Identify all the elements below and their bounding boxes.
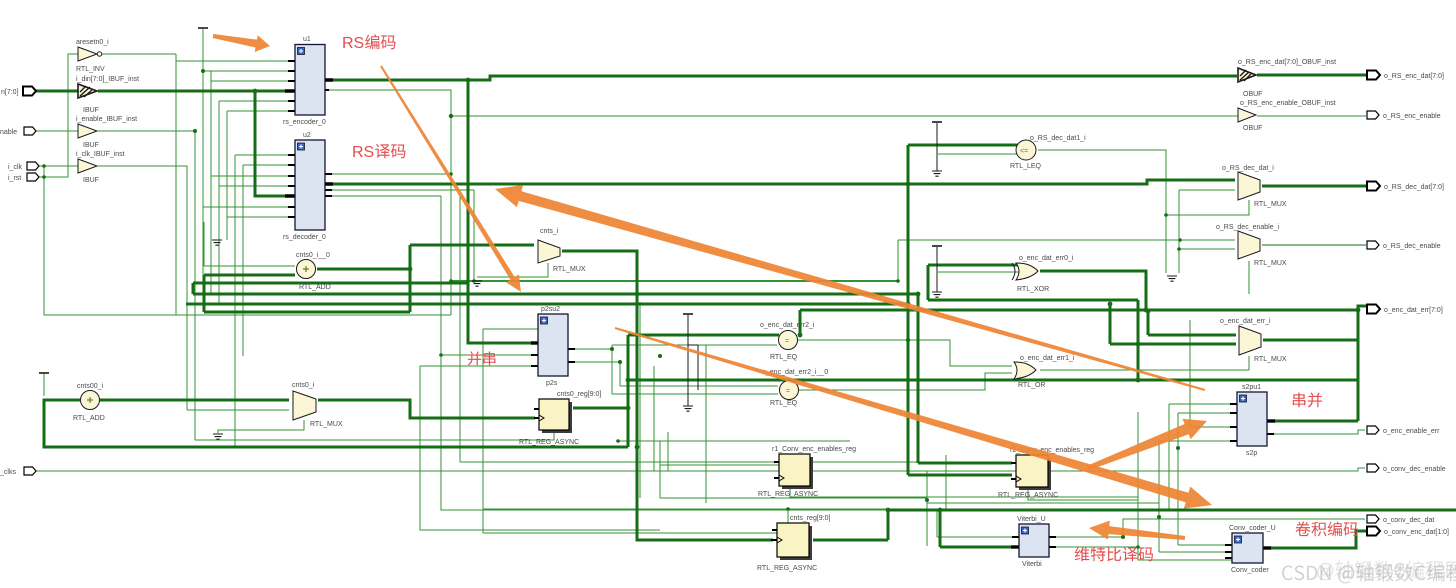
wire conv_coder in2 — [1159, 517, 1228, 552]
wire cnts_reg in2 — [483, 532, 777, 534]
block Conv_coder_U Conv_coder — [1225, 525, 1276, 574]
buffer IBUF i_din[7:0]_IBUF_inst (hatched bus) — [76, 76, 139, 114]
watermark — [1282, 564, 1456, 584]
wire x946 — [945, 455, 947, 510]
port o_RS_dec_dat[7:0] — [1367, 182, 1380, 191]
mux o_RS_dec_enable_i RTL_MUX — [1216, 224, 1287, 267]
wire OBUF to port — [1257, 74, 1366, 77]
ground — [932, 292, 942, 297]
wire OBUF enable to port — [1257, 115, 1366, 117]
wire u2 in1 — [235, 155, 288, 447]
wire s2p out — [1271, 420, 1358, 423]
wire s2p out2 to port — [1271, 430, 1365, 434]
wire band y294 — [193, 294, 1012, 463]
comparator o_RS_dec_dat1_i RTL_LEQ — [1010, 135, 1086, 170]
svg-text:cnts0_i__0: cnts0_i__0 — [296, 252, 330, 259]
svg-text:RS: RS — [342, 35, 364, 52]
svg-text:i_enable_IBUF_inst: i_enable_IBUF_inst — [76, 116, 137, 123]
port o_enc_enable_err — [1367, 426, 1379, 434]
register r1_Conv_enc_enables_reg RTL_REG_ASYNC — [758, 446, 856, 498]
wire adder in2 bold — [204, 274, 295, 277]
svg-text:cnts_reg[9:0]: cnts_reg[9:0] — [790, 515, 831, 522]
mux o_enc_dat_err_i RTL_MUX — [1220, 318, 1287, 363]
wire XOR in2 — [938, 271, 1019, 273]
wire cnts0_i mux out to reg — [318, 400, 535, 418]
wire x460 vertical — [459, 196, 461, 462]
wire band y283 — [193, 282, 468, 285]
wire x468 vertical to p2s — [468, 80, 534, 343]
wire cnts_i mux select gnd — [477, 263, 548, 277]
svg-text:cnts00_i: cnts00_i — [77, 383, 104, 390]
svg-text:o_enc_dat_err_i: o_enc_dat_err_i — [1220, 318, 1271, 325]
label conv encode — [1296, 522, 1359, 537]
svg-text:RTL_REG_ASYNC: RTL_REG_ASYNC — [998, 492, 1058, 499]
svg-text:RTL_REG_ASYNC: RTL_REG_ASYNC — [519, 439, 579, 446]
wire x1138 300-380 — [1137, 300, 1140, 380]
svg-text:Conv_coder_U: Conv_coder_U — [1229, 525, 1276, 532]
wire cnts00 out to mux — [100, 399, 289, 402]
svg-text:o_RS_enc_dat[7:0]_OBUF_inst: o_RS_enc_dat[7:0]_OBUF_inst — [1238, 59, 1336, 66]
wire cnts0_i__0 add out to cnts_i mux — [317, 245, 534, 269]
mux cnts0_i RTL_MUX — [292, 382, 343, 428]
wire x451 vertical — [450, 116, 452, 315]
wire LEQ in1 bold from u2 bus — [908, 145, 1019, 475]
port o_RS_dec_enable — [1367, 241, 1379, 249]
svg-text:o_conv_dec_enable: o_conv_dec_enable — [1383, 466, 1446, 473]
wire cnts00 stub — [43, 374, 45, 396]
svg-text:RTL_LEQ: RTL_LEQ — [1010, 163, 1042, 170]
wire u2 in6 — [203, 206, 288, 208]
svg-text:o_RS_enc_enable_OBUF_inst: o_RS_enc_enable_OBUF_inst — [1240, 100, 1336, 107]
block Viterbi_U Viterbi — [1011, 516, 1056, 568]
port i_clk — [27, 162, 39, 170]
wire u1 in3 — [211, 71, 288, 293]
wire density mid verticals — [640, 302, 706, 503]
svg-text:RTL_INV: RTL_INV — [76, 66, 105, 73]
wire band left cap — [192, 283, 195, 294]
buffer OBUF o_RS_enc_enable_OBUF_inst — [1238, 100, 1336, 132]
port o_RS_enc_dat[7:0] — [1367, 71, 1380, 80]
svg-text:RTL_XOR: RTL_XOR — [1017, 286, 1049, 293]
port i_clks — [24, 467, 36, 475]
wire i_rst to RTL_INV — [36, 54, 78, 177]
svg-text:i_din[7:0]_IBUF_inst: i_din[7:0]_IBUF_inst — [76, 76, 139, 83]
svg-text:n[7:0]: n[7:0] — [1, 89, 19, 96]
wire x1358 vertical — [1357, 310, 1360, 421]
svg-text:aresetn0_i: aresetn0_i — [76, 39, 109, 46]
wire long y471 i_clks — [36, 468, 1365, 471]
adder cnts0_i__0 RTL_ADD — [296, 252, 331, 291]
svg-text:RTL_MUX: RTL_MUX — [1254, 260, 1287, 267]
svg-text:RTL_ADD: RTL_ADD — [73, 415, 105, 422]
wire y293 from 637 — [637, 293, 906, 296]
node dots — [253, 89, 258, 94]
label viterbi decode — [1075, 547, 1153, 562]
svg-text:RTL_REG_ASYNC: RTL_REG_ASYNC — [758, 491, 818, 498]
wire x620 vertical EQ feeds — [619, 362, 621, 386]
svg-text:RTL_MUX: RTL_MUX — [310, 421, 343, 428]
svg-text:RTL_EQ: RTL_EQ — [770, 400, 798, 407]
svg-text:p2su2: p2su2 — [541, 306, 560, 313]
wire u2 out2 — [329, 174, 474, 355]
annotation arrow B — [495, 185, 1205, 391]
ground — [472, 281, 482, 286]
wire p2s in2 — [441, 355, 927, 510]
buffer IBUF i_enable_IBUF_inst — [76, 116, 137, 149]
wire EQ2 out to OR — [799, 373, 1012, 390]
svg-text:=: = — [786, 388, 790, 395]
wire XOR chain — [1040, 271, 1146, 310]
wire u2 in2 — [243, 165, 288, 356]
wire long y497 — [850, 496, 1138, 498]
buffer OBUF o_RS_enc_dat[7:0]_OBUF_inst (hatched bus) — [1238, 59, 1336, 98]
wire mux dec_dat in2 — [1179, 190, 1235, 273]
wire p2s out2 — [572, 361, 620, 363]
wire err mux out — [1263, 339, 1358, 342]
svg-text:OBUF: OBUF — [1243, 125, 1262, 132]
svg-text:<=: <= — [1020, 148, 1028, 155]
wire LEQ in2 — [938, 153, 1019, 155]
svg-text:o_RS_dec_enable: o_RS_dec_enable — [1383, 243, 1441, 250]
wire cnts0_reg select — [195, 431, 554, 440]
svg-text:o_RS_dec_dat1_i: o_RS_dec_dat1_i — [1030, 135, 1086, 142]
comparator o_enc_dat_err2_i__0 RTL_EQ — [762, 369, 828, 407]
block s2pu1 s2p — [1230, 384, 1275, 457]
svg-text:o_enc_dat_err0_i: o_enc_dat_err0_i — [1019, 255, 1074, 262]
svg-text:RS: RS — [352, 144, 374, 161]
wire s2p in feeds — [1159, 320, 1233, 517]
label serial-to-parallel — [1293, 393, 1323, 408]
svg-text:RTL_MUX: RTL_MUX — [553, 266, 586, 273]
svg-text:cnts_i: cnts_i — [540, 228, 559, 235]
wire u1 out bus to OBUF — [329, 76, 1237, 80]
svg-text:i_clk_IBUF_inst: i_clk_IBUF_inst — [76, 151, 125, 158]
wire u1 in5 — [219, 101, 288, 304]
svg-text:RTL_ADD: RTL_ADD — [299, 284, 331, 291]
wire u2 in7 — [227, 216, 288, 218]
wire i_enable to IBUF — [36, 130, 78, 132]
wire clk IBUF out vertical — [98, 166, 187, 410]
register cnts0_reg[9:0] RTL_REG_ASYNC — [519, 391, 601, 446]
svg-text:OBUF: OBUF — [1243, 91, 1262, 98]
wire EQ1 out to OR — [798, 340, 1012, 366]
wire u1 in6 — [227, 111, 288, 240]
ground — [932, 171, 942, 176]
block u2 rs_decoder_0 — [283, 132, 333, 241]
wire cnts0_i mux in2 — [187, 409, 289, 411]
wire cnts00 loop — [44, 400, 628, 447]
wire p2s out1 — [572, 348, 612, 350]
svg-text:i_rst: i_rst — [8, 175, 21, 182]
wire band y304 — [186, 303, 908, 306]
wire y509 — [483, 509, 886, 523]
svg-text:o_RS_dec_enable_i: o_RS_dec_enable_i — [1216, 224, 1279, 231]
wire y510 box top — [888, 509, 1456, 512]
wire stub gnd937b — [936, 247, 938, 292]
wire y300 xor loop — [928, 265, 1138, 300]
wire EQ1 in2 — [612, 344, 777, 346]
svg-text:o_conv_dec_dat: o_conv_dec_dat — [1383, 517, 1434, 524]
svg-text:o_enc_dat_err[7:0]: o_enc_dat_err[7:0] — [1384, 307, 1443, 314]
wire misc mid — [483, 329, 538, 533]
svg-text:Viterbi_U: Viterbi_U — [1017, 516, 1046, 523]
comparator o_enc_dat_err2_i RTL_EQ — [760, 322, 815, 361]
svg-text:p2s: p2s — [546, 380, 558, 387]
ground — [683, 406, 693, 411]
wire viterbi out to conv_dec_dat port — [1053, 519, 1365, 547]
svg-text:u2: u2 — [303, 132, 311, 139]
svg-text:RTL_MUX: RTL_MUX — [1254, 201, 1287, 208]
svg-text:o_RS_dec_dat_i: o_RS_dec_dat_i — [1222, 165, 1274, 172]
constant tbar cnts00 — [39, 372, 49, 374]
constant tbar top — [198, 27, 208, 29]
svg-text:o_RS_enc_enable: o_RS_enc_enable — [1383, 113, 1441, 120]
wire dec_dat mux out — [1262, 185, 1366, 188]
port o_enc_dat_err[7:0] — [1367, 305, 1380, 314]
wire enable IBUF out vertical distribution — [98, 131, 195, 440]
wire RTL_INV out — [98, 53, 176, 55]
svg-text:cnts0_i: cnts0_i — [292, 382, 315, 389]
svg-text:Conv_coder: Conv_coder — [1231, 567, 1269, 574]
svg-text:u1: u1 — [303, 36, 311, 43]
wire mux dec_en select — [1248, 261, 1250, 294]
adder cnts00_i RTL_ADD — [73, 383, 105, 422]
wire x888 riser — [887, 510, 890, 540]
wire y335 to EQ1 — [628, 334, 779, 337]
wire u2 in4 — [219, 185, 288, 187]
wire XOR in1 — [928, 264, 1019, 267]
annotation arrow A — [380, 66, 521, 293]
wire OR out to mux select — [1040, 356, 1249, 370]
svg-text:rs_encoder_0: rs_encoder_0 — [283, 119, 326, 126]
svg-text:r1_Conv_enc_enables_reg: r1_Conv_enc_enables_reg — [772, 446, 856, 453]
wire long y462 — [460, 461, 1012, 463]
svg-text:RTL_OR: RTL_OR — [1018, 382, 1046, 389]
register cnts_reg[9:0] RTL_REG_ASYNC — [757, 515, 831, 572]
ground — [1167, 276, 1177, 281]
wire mux dec_dat select — [1166, 200, 1249, 215]
svg-text:_clks: _clks — [0, 469, 16, 476]
wire conv_coder out to port — [1267, 531, 1366, 548]
watermark2 — [1317, 561, 1456, 581]
wire cnts_reg out — [813, 539, 888, 542]
wire u1 in2 — [203, 70, 288, 72]
wire x1148 to err mux — [1148, 310, 1236, 335]
gate o_enc_dat_err0_i RTL_XOR — [1012, 255, 1074, 293]
svg-text:o_RS_dec_dat[7:0]: o_RS_dec_dat[7:0] — [1384, 184, 1444, 191]
wire x612 vertical EQ feeds — [611, 345, 613, 394]
wire cnts_i mux out down x637 — [562, 251, 773, 540]
annotation arrow D — [1087, 419, 1207, 470]
wire band y281 medium — [451, 280, 898, 282]
port o_conv_enc_dat[1:0] — [1367, 527, 1380, 536]
port enable — [24, 127, 36, 135]
inverter RTL_INV aresetn0_i — [76, 39, 109, 73]
port i_din[7:0] — [23, 87, 36, 96]
svg-text:s2p: s2p — [1246, 450, 1257, 457]
buffer IBUF i_clk_IBUF_inst — [76, 151, 125, 184]
wire i_din bus to u1 — [98, 90, 288, 93]
wire u2 in3 — [211, 175, 288, 177]
annotation arrow E — [1089, 521, 1185, 540]
wire adder in1 — [204, 222, 295, 266]
gate o_enc_dat_err1_i RTL_OR — [1014, 355, 1075, 389]
wire p2s in3 — [420, 366, 660, 530]
wire band y311 err to port — [800, 306, 1366, 335]
wire u1 in1 — [176, 54, 288, 315]
svg-text:s2pu1: s2pu1 — [1242, 384, 1261, 391]
wire cnts0_i mux select — [218, 420, 304, 433]
wire band y312 loop — [204, 245, 410, 312]
label parallel-to-serial — [468, 351, 496, 365]
block p2su2 p2s — [531, 306, 575, 387]
wire i_din port to IBUF — [36, 90, 78, 93]
wire y380 to x1358 — [628, 379, 1358, 382]
svg-text:rs_decoder_0: rs_decoder_0 — [283, 234, 326, 241]
svg-text:=: = — [785, 338, 789, 345]
svg-text:o_enc_dat_err1_i: o_enc_dat_err1_i — [1020, 355, 1075, 362]
wire stub gnd937a — [936, 123, 938, 171]
wire y503 — [927, 502, 1159, 504]
wire cnts0_reg out — [573, 407, 628, 410]
svg-text:RTL_MUX: RTL_MUX — [1254, 356, 1287, 363]
wire r1 inputs — [618, 432, 927, 498]
wire vertical x203 from top stub — [202, 29, 204, 283]
register r2_Conv_enc_enables_reg RTL_REG_ASYNC — [998, 447, 1094, 499]
wire x628 vertical — [627, 335, 630, 447]
svg-text:IBUF: IBUF — [83, 142, 99, 149]
svg-text:o_enc_dat_err2_i: o_enc_dat_err2_i — [760, 322, 815, 329]
wire viterbi in2 — [937, 510, 1015, 537]
svg-text:RTL_EQ: RTL_EQ — [770, 354, 798, 361]
svg-text:RTL_REG_ASYNC: RTL_REG_ASYNC — [757, 565, 817, 572]
svg-text:o_enc_enable_err: o_enc_enable_err — [1383, 428, 1440, 435]
wire r2 select — [1028, 487, 1138, 500]
mux cnts_i RTL_MUX — [538, 228, 586, 273]
wire viterbi box left — [940, 510, 1015, 547]
ground — [212, 240, 222, 245]
svg-text:nable: nable — [0, 129, 17, 136]
wire stub gnd688 — [688, 315, 698, 406]
svg-text:IBUF: IBUF — [83, 177, 99, 184]
annotation arrow C — [213, 34, 270, 52]
wire err mux in2 — [1110, 304, 1236, 344]
port o_RS_enc_enable — [1367, 111, 1379, 119]
wire i_clk to IBUF — [36, 165, 78, 167]
svg-text:Viterbi: Viterbi — [1022, 561, 1042, 568]
port o_conv_dec_enable — [1367, 464, 1379, 472]
wire x927 vertical — [926, 471, 928, 546]
wire u1 out2 enable to OBUF — [329, 90, 1238, 116]
wire conv in top — [1178, 448, 1228, 545]
ground — [213, 434, 223, 439]
svg-text:IBUF: IBUF — [83, 107, 99, 114]
svg-text:i_clk: i_clk — [8, 164, 23, 171]
wire u2 out bus to mux — [329, 180, 1235, 184]
wire y240 to dec muxes — [898, 240, 1235, 281]
wire EQ2 in — [612, 386, 778, 394]
constant tbar 688 — [683, 313, 693, 315]
wire LEQ out — [1038, 150, 1166, 273]
constant tbar 937b — [932, 245, 942, 247]
wire dec_enable mux out — [1262, 244, 1366, 246]
constant tbar 937a — [932, 121, 942, 123]
wire r1 select — [790, 487, 927, 497]
mux o_RS_dec_dat_i RTL_MUX — [1222, 165, 1287, 208]
wire i_din bus branch u2 — [255, 91, 288, 196]
svg-text:o_conv_enc_dat[1:0]: o_conv_enc_dat[1:0] — [1384, 529, 1449, 536]
wire x1138 thin vertical low — [1138, 412, 1232, 560]
port i_rst — [27, 173, 39, 181]
wire left long vertical x44 — [44, 166, 451, 315]
svg-text:cnts0_reg[9:0]: cnts0_reg[9:0] — [557, 391, 601, 398]
annotation arrow B2 — [615, 327, 1212, 509]
port o_conv_dec_dat — [1367, 515, 1379, 523]
svg-text:o_RS_enc_dat[7:0]: o_RS_enc_dat[7:0] — [1384, 73, 1444, 80]
block u1 rs_encoder_0 — [283, 36, 333, 126]
